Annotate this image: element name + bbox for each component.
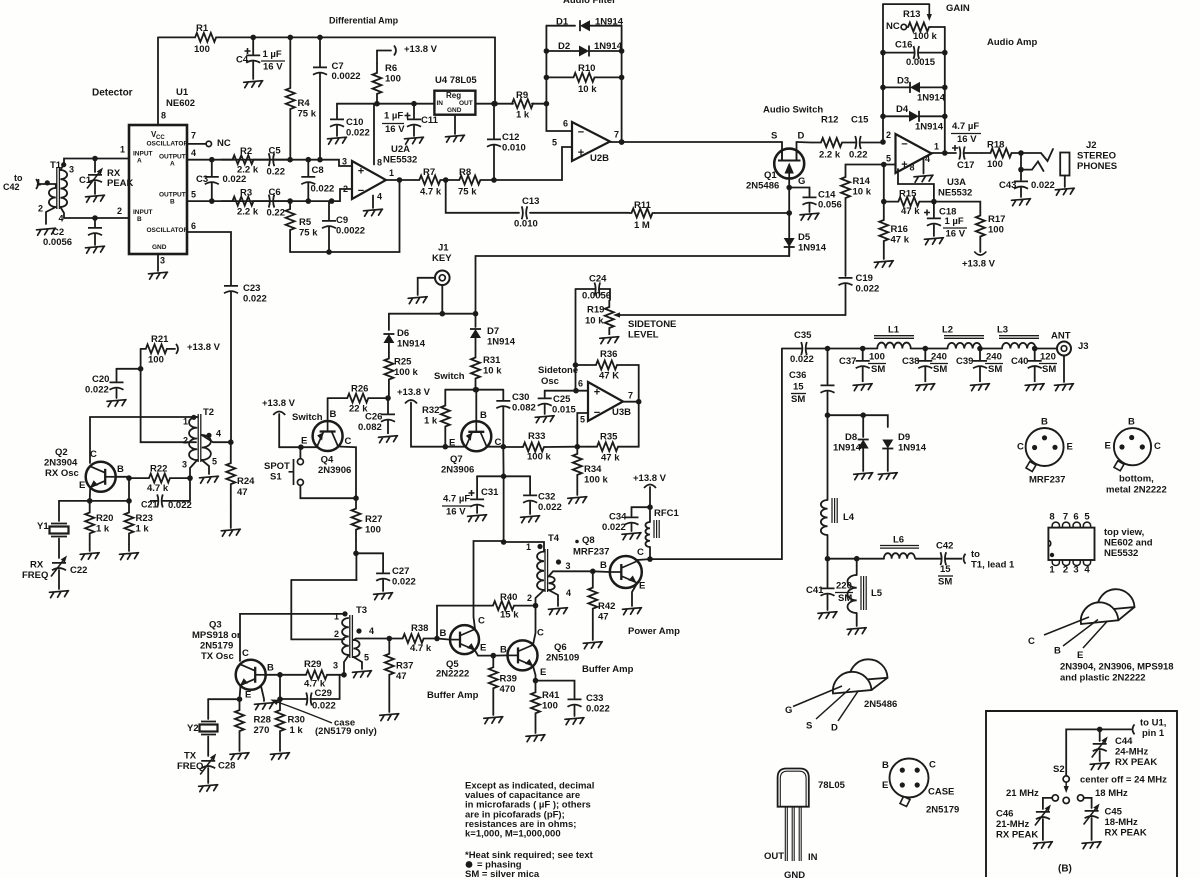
Q2 emitter lead (89, 487, 92, 501)
svg-text:4.7 k: 4.7 k (147, 483, 169, 494)
Q7 bracket rail (445, 389, 503, 391)
svg-text:R29: R29 (304, 659, 321, 670)
svg-text:+13.8 V: +13.8 V (262, 398, 296, 409)
crystal Y1 (58, 501, 60, 521)
resistor R8 75k (446, 176, 494, 185)
svg-text:10 k: 10 k (853, 187, 872, 198)
svg-text:10 k: 10 k (578, 84, 597, 95)
svg-text:240: 240 (986, 352, 1002, 363)
ground under R20 (80, 553, 99, 560)
svg-text:G: G (785, 705, 792, 716)
svg-text:C33: C33 (586, 693, 603, 704)
node top rail (253, 36, 495, 38)
svg-text:2.2 k: 2.2 k (237, 207, 259, 218)
audio filter left rail (546, 26, 572, 131)
svg-text:Audio Filter: Audio Filter (563, 0, 616, 6)
svg-text:Q1: Q1 (764, 170, 777, 181)
U2A pin8 lead (373, 104, 375, 165)
svg-text:10 k: 10 k (585, 316, 604, 327)
svg-text:center off = 24 MHz: center off = 24 MHz (1080, 775, 1167, 786)
svg-text:S1: S1 (270, 472, 282, 483)
variable capacitor C46 (1036, 812, 1050, 819)
resistor R38 4.7k (389, 634, 437, 643)
svg-text:R17: R17 (988, 214, 1005, 225)
svg-text:Reg: Reg (446, 91, 461, 100)
capacitor C29 0.022 (280, 693, 312, 706)
svg-text:0.22: 0.22 (267, 167, 286, 178)
svg-text:2: 2 (183, 436, 188, 446)
svg-text:C: C (929, 760, 936, 771)
DIP-8 package top view (1048, 528, 1094, 560)
svg-text:+: + (358, 166, 364, 178)
svg-text:metal 2N2222: metal 2N2222 (1106, 485, 1167, 496)
svg-text:24-MHz: 24-MHz (1115, 747, 1149, 758)
svg-text:B: B (137, 216, 142, 223)
svg-text:C13: C13 (522, 196, 539, 207)
node R8 C12 (494, 147, 572, 180)
svg-text:FREQ: FREQ (177, 761, 203, 772)
svg-text:NE602 and: NE602 and (1104, 538, 1153, 549)
svg-text:+13.8 V: +13.8 V (187, 342, 221, 353)
T4 pin1 wire (504, 542, 544, 552)
svg-text:D5: D5 (798, 232, 811, 243)
svg-text:to U1,: to U1, (1140, 718, 1166, 729)
svg-text:NC: NC (217, 138, 231, 149)
svg-text:R33: R33 (528, 431, 545, 442)
resistor R17 100 (934, 202, 980, 212)
svg-text:C: C (478, 616, 485, 627)
U1 pin6 oscillator wire to C23 (187, 232, 231, 285)
resistor R22 4.7k (129, 474, 190, 483)
capacitor C40 120 SM (1028, 349, 1042, 383)
regulator input rail (337, 103, 434, 105)
svg-text:R10: R10 (578, 63, 595, 74)
resistor R5 75k (286, 201, 295, 238)
capacitor C4 1uF 16V polarized (252, 37, 254, 54)
svg-text:C31: C31 (481, 487, 499, 498)
regulator U4 78L05 box (434, 91, 475, 115)
svg-text:Buffer Amp: Buffer Amp (582, 664, 634, 675)
svg-text:R18: R18 (987, 140, 1004, 151)
svg-text:OUT: OUT (459, 100, 473, 107)
svg-text:8: 8 (377, 158, 382, 168)
svg-text:5: 5 (886, 154, 891, 164)
ground under C37 (853, 384, 872, 391)
resistor R35 47k (587, 442, 628, 451)
svg-text:47: 47 (598, 612, 609, 623)
svg-text:3: 3 (566, 561, 571, 571)
svg-text:SM: SM (871, 364, 885, 375)
svg-text:R13: R13 (903, 9, 920, 20)
svg-text:100 k: 100 k (913, 31, 937, 42)
svg-text:to: to (971, 549, 980, 560)
svg-text:C42: C42 (3, 182, 20, 192)
U3A pin4 ground (923, 158, 925, 174)
svg-text:1 k: 1 k (290, 725, 304, 736)
svg-text:4: 4 (377, 192, 382, 202)
svg-text:OUT: OUT (764, 851, 784, 862)
svg-text:C27: C27 (392, 566, 409, 577)
capacitor C25 0.015 (544, 391, 546, 397)
ground under R23 (120, 553, 139, 560)
svg-text:1 µF: 1 µF (384, 111, 403, 122)
svg-text:1N914: 1N914 (915, 122, 944, 133)
svg-text:8: 8 (1049, 512, 1054, 523)
capacitor C23 0.022 (224, 286, 238, 293)
svg-text:C3: C3 (196, 174, 208, 185)
C24 C25 node wire (545, 390, 588, 392)
svg-text:2N3906: 2N3906 (441, 465, 474, 476)
svg-text:2N3904, 2N3906, MPS918: 2N3904, 2N3906, MPS918 (1060, 662, 1174, 673)
svg-text:R40: R40 (500, 592, 517, 603)
svg-text:2N5179: 2N5179 (926, 805, 959, 816)
svg-text:C22: C22 (70, 565, 87, 576)
resistor R3 2.2k (221, 197, 265, 206)
svg-text:0.082: 0.082 (512, 403, 536, 414)
svg-text:1: 1 (526, 542, 531, 552)
svg-text:Q4: Q4 (321, 455, 334, 466)
svg-text:7: 7 (191, 131, 196, 141)
capacitor C12 0.010 (487, 104, 501, 180)
diode D1 1N914 (546, 25, 575, 27)
svg-text:0.015: 0.015 (552, 405, 576, 416)
svg-text:Switch: Switch (434, 371, 465, 382)
Q8 base wire (593, 570, 610, 573)
svg-text:pin 1: pin 1 (1142, 728, 1165, 739)
svg-text:1 k: 1 k (424, 416, 438, 427)
svg-text:R8: R8 (459, 167, 471, 178)
svg-text:4: 4 (1084, 565, 1090, 576)
svg-text:R28: R28 (254, 715, 271, 726)
svg-text:RX PEAK: RX PEAK (1115, 757, 1157, 768)
svg-text:1 k: 1 k (516, 110, 530, 121)
svg-text:RX PEAK: RX PEAK (1105, 828, 1147, 839)
svg-text:100 k: 100 k (394, 367, 418, 378)
svg-text:−: − (901, 139, 907, 151)
svg-text:Y2: Y2 (187, 723, 199, 734)
svg-text:R42: R42 (598, 601, 615, 612)
resistor R36 47K (575, 289, 577, 391)
U2B output (610, 141, 782, 143)
svg-text:E: E (1067, 442, 1073, 453)
svg-text:16 V: 16 V (446, 507, 466, 518)
svg-text:ANT: ANT (1051, 331, 1071, 342)
resistor R4 75k (286, 37, 295, 159)
capacitor C43 0.022 (1014, 181, 1028, 188)
svg-text:+: + (578, 147, 584, 159)
T2 pin4 wire (202, 435, 231, 442)
wire L2 to L3 (981, 348, 1002, 350)
svg-text:C: C (1017, 442, 1024, 453)
variable capacitor C44 (1099, 729, 1101, 741)
svg-text:120: 120 (1040, 352, 1056, 363)
svg-text:240: 240 (931, 352, 947, 363)
svg-text:D2: D2 (558, 41, 570, 52)
U2A pin4 lead and ground (372, 196, 374, 209)
svg-text:4: 4 (566, 588, 571, 598)
transistor Q3 MPS918 (236, 660, 266, 690)
svg-text:E: E (639, 581, 645, 592)
capacitor C34 0.022 (632, 507, 651, 516)
inductor L6 (884, 553, 915, 558)
svg-text:0.022: 0.022 (790, 354, 814, 365)
svg-text:16 V: 16 V (946, 229, 966, 240)
svg-text:0.010: 0.010 (514, 219, 538, 230)
Q8 collector lead (637, 558, 650, 561)
resistor R40 15k (437, 606, 490, 639)
svg-text:47 K: 47 K (599, 371, 619, 382)
svg-text:47 k: 47 k (891, 235, 910, 246)
ground under C31 (468, 515, 487, 522)
Q3 emitter lead (240, 686, 241, 700)
svg-text:100 k: 100 k (584, 475, 608, 486)
svg-text:Y1: Y1 (37, 521, 49, 532)
svg-text:100: 100 (385, 74, 401, 85)
U3B pin5 jog (577, 413, 588, 447)
svg-text:15: 15 (793, 382, 804, 393)
svg-text:C17: C17 (957, 160, 974, 171)
inductor L5 (856, 559, 858, 575)
resistor R31 10k (471, 350, 480, 386)
U4 GND lead (454, 115, 456, 134)
svg-text:R23: R23 (136, 513, 153, 524)
U1 pin 3 lead (157, 254, 159, 271)
resistor R33 100k (521, 443, 546, 452)
Q8 annotation (575, 540, 579, 544)
svg-text:OUTPUT: OUTPUT (159, 153, 186, 160)
potentiometer R19 10k sidetone level (605, 300, 614, 335)
svg-text:−: − (358, 185, 364, 197)
svg-text:IN: IN (437, 100, 444, 107)
svg-text:0.010: 0.010 (502, 143, 526, 154)
ground under C18 (924, 238, 943, 245)
svg-text:5: 5 (212, 457, 217, 467)
svg-text:E: E (480, 643, 486, 654)
svg-text:PHONES: PHONES (1077, 161, 1117, 172)
capacitor C2 0.0056 (94, 218, 96, 227)
svg-text:1 µF: 1 µF (263, 49, 282, 60)
filter main line (828, 348, 878, 350)
svg-text:4: 4 (191, 148, 196, 158)
svg-text:D: D (831, 723, 838, 734)
capacitor C8 0.022 (301, 160, 315, 201)
jack J2 body (1060, 153, 1069, 176)
feedback right rail (944, 27, 946, 153)
svg-text:47 k: 47 k (901, 206, 920, 217)
svg-text:C40: C40 (1011, 356, 1028, 367)
svg-text:47: 47 (396, 671, 407, 682)
ground under C27 (374, 593, 393, 600)
svg-text:U1: U1 (176, 87, 189, 98)
resistor R15 47k (884, 197, 934, 206)
U1 pin 8 lead (157, 37, 159, 125)
capacitor C6 0.22 (265, 195, 290, 208)
svg-text:C39: C39 (956, 356, 973, 367)
svg-text:2: 2 (117, 206, 122, 216)
pinout MRF237 (1026, 428, 1064, 466)
U3A pin5 wire with R14 (884, 164, 896, 166)
svg-text:R32: R32 (422, 405, 439, 416)
svg-text:RX: RX (30, 560, 44, 571)
ground under C41 (818, 612, 837, 619)
wire L3 to J3 (1036, 348, 1058, 350)
Q3 case lead and ground (261, 686, 264, 701)
resistor R9 1k (512, 99, 533, 108)
inductor RFC1 (645, 522, 650, 547)
capacitor C17 4.7uF polarized (959, 147, 965, 160)
svg-text:T3: T3 (356, 605, 367, 616)
capacitor C30 0.082 (496, 390, 510, 447)
svg-text:R2: R2 (240, 146, 252, 157)
svg-text:2: 2 (38, 204, 43, 214)
transformer T1 (49, 188, 56, 207)
svg-text:3: 3 (69, 165, 74, 175)
ground U1 pin3 (149, 272, 168, 279)
svg-text:R34: R34 (584, 464, 602, 475)
ground under C1 (86, 195, 105, 202)
svg-text:SM: SM (938, 577, 952, 588)
svg-text:0.022: 0.022 (346, 128, 370, 139)
svg-text:T1: T1 (50, 160, 62, 171)
svg-text:D9: D9 (898, 432, 910, 443)
svg-text:0.022: 0.022 (602, 522, 626, 533)
svg-text:0.0022: 0.0022 (332, 71, 361, 82)
svg-text:2.2 k: 2.2 k (237, 165, 259, 176)
resistor R12 2.2k (811, 138, 852, 147)
svg-text:R27: R27 (365, 514, 382, 525)
svg-text:R16: R16 (891, 224, 908, 235)
svg-text:U2A: U2A (391, 144, 410, 155)
ground under C32 (521, 516, 540, 523)
svg-text:Q3: Q3 (209, 620, 222, 631)
svg-text:SM: SM (791, 394, 805, 405)
svg-text:2N3904: 2N3904 (44, 458, 78, 469)
svg-text:8: 8 (910, 163, 915, 173)
svg-text:Buffer Amp: Buffer Amp (427, 690, 479, 701)
svg-text:J3: J3 (1078, 341, 1089, 352)
svg-text:GAIN: GAIN (946, 3, 970, 14)
resistor R16 47k (879, 216, 888, 245)
capacitor C36 15 SM (827, 349, 829, 385)
ground under C28 (199, 785, 218, 792)
svg-text:0.022: 0.022 (538, 502, 562, 513)
svg-text:bottom,: bottom, (1119, 474, 1154, 485)
svg-text:1: 1 (389, 168, 394, 178)
svg-text:R14: R14 (853, 176, 871, 187)
svg-text:100: 100 (365, 525, 381, 536)
svg-text:D8: D8 (845, 432, 857, 443)
op-amp U3A (896, 134, 932, 173)
D8 D9 branch wire (827, 415, 829, 500)
svg-text:100: 100 (869, 352, 885, 363)
svg-text:B: B (170, 198, 175, 205)
U3B output (623, 401, 639, 403)
sidetone level feed wire (621, 314, 846, 316)
resistor R28 270 (235, 699, 244, 742)
transistor Q6 2N5109 (508, 640, 538, 670)
svg-text:D6: D6 (397, 328, 409, 339)
variable capacitor C1 RX PEAK (94, 159, 96, 173)
svg-text:0.022: 0.022 (312, 701, 336, 712)
svg-text:C44: C44 (1115, 736, 1133, 747)
Q7 base lead (475, 390, 477, 422)
svg-text:C29: C29 (315, 688, 332, 699)
wire L1 to L2 (911, 348, 948, 350)
svg-text:C24: C24 (589, 274, 607, 285)
inductor L4 (821, 500, 828, 535)
resistor R26 22k (328, 394, 388, 403)
resistor R14 10k (841, 175, 850, 200)
svg-text:STEREO: STEREO (1077, 151, 1116, 162)
T2 pin5 lead and ground (202, 460, 209, 474)
svg-text:C4: C4 (236, 55, 249, 66)
svg-text:R12: R12 (821, 115, 838, 126)
resistor R34 100k (573, 447, 582, 482)
capacitor C10 0.022 (336, 104, 338, 118)
diode D4 1N914 (883, 115, 909, 117)
svg-text:0.022: 0.022 (168, 500, 192, 511)
svg-text:Detector: Detector (92, 87, 133, 98)
svg-text:21-MHz: 21-MHz (996, 819, 1030, 830)
svg-text:1N914: 1N914 (595, 17, 624, 28)
variable capacitor C22 RX FREQ (52, 563, 66, 570)
svg-text:78L05: 78L05 (818, 780, 846, 791)
svg-text:B: B (330, 409, 337, 420)
svg-text:C8: C8 (312, 165, 324, 176)
ground under C22 (50, 591, 69, 598)
svg-text:21 MHz: 21 MHz (1006, 788, 1039, 799)
svg-text:C38: C38 (902, 356, 919, 367)
Q5 collector wire to T4 node (474, 541, 504, 629)
svg-text:4: 4 (369, 626, 374, 636)
svg-text:IN: IN (808, 852, 818, 863)
svg-text:GND: GND (152, 244, 167, 251)
svg-text:k=1,000, M=1,000,000: k=1,000, M=1,000,000 (465, 829, 561, 840)
svg-text:C6: C6 (269, 187, 281, 198)
capacitor C26 0.082 (381, 398, 395, 434)
diode D8 1N914 (862, 415, 864, 437)
svg-text:+: + (901, 159, 907, 171)
ground under C34 (622, 533, 641, 540)
svg-text:C11: C11 (421, 115, 439, 126)
svg-text:KEY: KEY (432, 253, 452, 264)
svg-text:FREQ: FREQ (22, 570, 48, 581)
ground under C38 (916, 384, 935, 391)
svg-text:1: 1 (120, 145, 125, 155)
svg-text:+13.8 V: +13.8 V (633, 473, 667, 484)
svg-text:OUTPUT: OUTPUT (159, 191, 186, 198)
svg-text:7: 7 (628, 391, 633, 401)
svg-text:8: 8 (161, 111, 166, 121)
svg-text:4.7 µF: 4.7 µF (443, 494, 470, 505)
package drawing 2N5486 TO-92 (849, 659, 887, 681)
svg-text:E: E (1077, 650, 1083, 661)
diode D7 1N914 (475, 314, 477, 327)
svg-text:4: 4 (216, 429, 221, 439)
svg-text:1 k: 1 k (136, 524, 150, 535)
svg-text:4: 4 (925, 154, 930, 164)
svg-text:0.0015: 0.0015 (906, 57, 936, 68)
svg-text:L1: L1 (888, 325, 900, 336)
svg-text:NC: NC (886, 21, 900, 32)
svg-text:47 k: 47 k (601, 453, 620, 464)
potentiometer R13 100k GAIN (883, 3, 929, 5)
IC U1 NE602 box (129, 125, 187, 254)
svg-text:16 V: 16 V (385, 124, 405, 135)
svg-text:B: B (600, 560, 607, 571)
L4 bottom node (828, 558, 884, 560)
ground under J3 (1055, 384, 1074, 391)
